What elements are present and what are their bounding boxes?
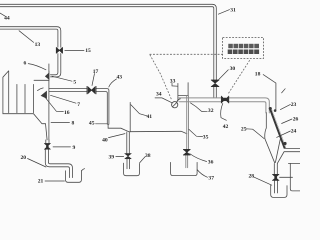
svg-text:41: 41 <box>147 114 153 120</box>
wire junction horizontal to riser 33 <box>130 131 187 133</box>
controller dashed box <box>223 38 264 59</box>
svg-text:38: 38 <box>145 153 151 159</box>
internal header line 5 <box>34 79 49 81</box>
inclined bar 23 <box>270 108 285 149</box>
tank 37 <box>171 162 198 175</box>
leader 6 <box>28 64 46 70</box>
valve 17 <box>87 86 96 94</box>
pipe 41 vertical <box>129 102 131 131</box>
wall stub left of pipe 5 entry <box>48 64 50 72</box>
valve 30 <box>211 80 219 87</box>
valve 15 <box>56 47 62 53</box>
leader 41 <box>131 105 147 116</box>
svg-text:31: 31 <box>230 7 236 13</box>
pipe 13 second duct double line <box>0 27 61 48</box>
pump 34 outlet curl <box>177 99 181 102</box>
leader 23 <box>280 104 290 109</box>
pipe below valve 36 into tank 37 <box>186 155 188 167</box>
pipe 8 horizontal double line <box>49 89 109 125</box>
leader 45 <box>96 123 108 125</box>
edge box container <box>288 163 300 191</box>
leader 25 <box>246 129 264 139</box>
svg-text:18: 18 <box>255 72 261 78</box>
svg-text:33: 33 <box>170 78 176 84</box>
controller text row 2 <box>228 50 259 55</box>
svg-text:21: 21 <box>38 179 44 185</box>
tube hatch line 4 <box>32 84 34 112</box>
pipe down to valve 39 <box>127 132 130 153</box>
svg-text:45: 45 <box>89 121 95 127</box>
tube hatch line 2 <box>16 84 18 112</box>
leader 42 <box>221 103 227 120</box>
leader 43 <box>109 79 117 87</box>
drain pipe from chamber to valve 9 <box>46 140 49 144</box>
valve 39 <box>125 154 132 159</box>
funnel right slant <box>277 152 284 163</box>
stray tick near 23 <box>282 89 286 93</box>
svg-text:24: 24 <box>291 129 297 135</box>
wire below valve 15 hooking left into chamber <box>50 54 60 77</box>
leader 31 <box>218 10 229 15</box>
leader 24 <box>277 131 291 137</box>
pipe below valve 39 into tank <box>127 159 130 169</box>
tank 27 <box>271 185 287 197</box>
leader 17 <box>92 74 95 86</box>
svg-text:25: 25 <box>241 126 247 132</box>
svg-text:8: 8 <box>72 120 75 126</box>
leader 9 <box>53 146 71 148</box>
svg-text:26: 26 <box>293 117 299 123</box>
svg-text:16: 16 <box>64 110 70 116</box>
leader 38 <box>140 157 146 163</box>
leader 30 <box>219 70 229 80</box>
svg-text:36: 36 <box>208 160 214 166</box>
svg-text:5: 5 <box>73 79 76 85</box>
svg-text:9: 9 <box>73 145 76 151</box>
leader 20 <box>28 159 47 168</box>
tube hatch line 3 <box>24 84 26 112</box>
tank 38 <box>124 163 140 176</box>
leader 26 <box>282 119 292 124</box>
svg-text:17: 17 <box>93 69 99 75</box>
leader 15 <box>65 49 84 51</box>
vessel 25 funnel left wall <box>265 113 275 163</box>
leader 35 <box>189 129 203 136</box>
leader 16 <box>46 98 64 112</box>
leader 7 <box>51 95 77 103</box>
leader 36 <box>190 154 207 162</box>
leader 33 <box>172 83 177 86</box>
leader 21 <box>45 180 65 182</box>
leader 28 <box>254 177 272 185</box>
outlet pipe right double <box>284 148 300 151</box>
valve 9 <box>44 143 50 149</box>
wire 45 jog down to junction <box>108 124 129 132</box>
svg-text:39: 39 <box>109 154 115 160</box>
leader 13 <box>19 31 34 43</box>
leader 8 <box>51 121 70 123</box>
leader 5 <box>52 76 72 81</box>
small arc above wedge <box>38 88 44 91</box>
valve 36 <box>183 149 190 155</box>
pipe 20 below valve 9 elbow right then down into tank 21 <box>45 149 69 177</box>
svg-text:35: 35 <box>203 135 209 141</box>
chamber furnace outline <box>3 71 47 140</box>
wire riser below valve 30 to main pipe <box>213 86 215 97</box>
svg-text:23: 23 <box>291 102 297 108</box>
chamber right wall <box>48 71 50 140</box>
svg-text:34: 34 <box>156 92 162 98</box>
svg-text:30: 30 <box>230 66 236 72</box>
pump 34 circle <box>172 102 178 108</box>
svg-text:15: 15 <box>85 48 91 54</box>
main pipe 32 grey double from pump to vessel <box>179 96 269 168</box>
leader 39 <box>116 156 124 158</box>
valve 28 <box>272 174 279 180</box>
leader 34 <box>155 98 172 103</box>
vessel 25 funnel right wall <box>275 140 280 163</box>
svg-text:37: 37 <box>208 176 214 182</box>
wire valve 28 to edge box <box>280 176 293 178</box>
svg-text:43: 43 <box>117 75 123 81</box>
riser 33 grey below collector through main pipe to valve 36 <box>187 96 189 150</box>
svg-text:13: 13 <box>35 42 41 48</box>
pipe 44 top main flue duct double line <box>0 4 216 80</box>
pipe 18 probe <box>263 75 276 110</box>
dashed control line horizontal <box>150 53 223 55</box>
leader 32 <box>191 103 208 112</box>
nozzle wedge pipe 5 entry <box>45 72 49 80</box>
pump 34 internal slash <box>173 103 177 107</box>
svg-text:44: 44 <box>4 15 10 21</box>
neck pipe to drain valve 28 <box>274 164 277 175</box>
svg-text:42: 42 <box>223 124 229 130</box>
svg-text:32: 32 <box>208 108 214 114</box>
valve 42 <box>221 96 229 103</box>
leader 40 <box>109 134 126 138</box>
svg-text:40: 40 <box>102 138 108 144</box>
tank 21 rim curl <box>81 169 84 171</box>
dashed control line to pump 34 <box>150 55 172 100</box>
tank 21 <box>66 171 82 183</box>
pipe below valve 28 into tank 27 <box>274 181 277 194</box>
controller text row 1 <box>228 44 259 48</box>
svg-text:6: 6 <box>24 61 27 67</box>
tube hatch line 1 <box>8 71 10 113</box>
leader 44 <box>0 13 5 16</box>
nozzle wedge pipe 8 exit <box>41 91 47 99</box>
svg-text:7: 7 <box>77 102 80 108</box>
dashed control line to valve 42 <box>228 60 249 93</box>
svg-text:28: 28 <box>249 173 255 179</box>
collector vessel above pump 34 <box>178 83 188 102</box>
leader 37 <box>197 170 207 178</box>
svg-text:20: 20 <box>21 155 27 161</box>
